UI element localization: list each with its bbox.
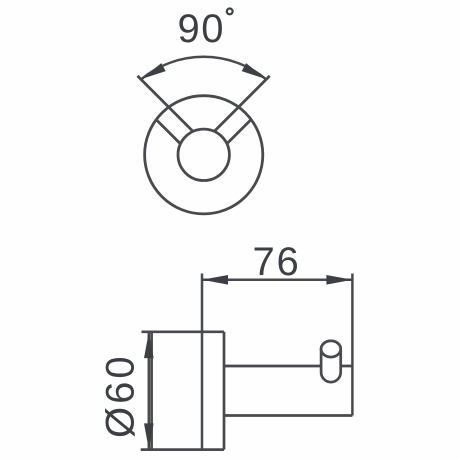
outer circle (flange, top view) <box>145 96 263 214</box>
plate left edge <box>150 332 153 450</box>
peg body (cylinder) <box>321 341 341 382</box>
svg-text:90: 90 <box>178 7 226 51</box>
flange/body split line + left extension line of 76 <box>201 274 204 450</box>
arm bottom edge <box>224 414 352 417</box>
76 arrowhead left <box>202 275 228 285</box>
right arm long edge / extension line <box>213 76 270 133</box>
dimension line 76 <box>202 279 352 282</box>
90 degree dimension arc <box>141 57 266 80</box>
arc arrowhead left <box>142 63 166 79</box>
inner circle (post, top view) <box>178 129 229 180</box>
right arm short edge <box>226 120 251 145</box>
arm end edge + right extension line of 76 <box>351 274 354 416</box>
plate top edge (with extension for dia 60) <box>142 330 225 333</box>
dia60 arrowhead top <box>144 332 154 358</box>
svg-text:Ø60: Ø60 <box>99 353 143 438</box>
left arm short edge <box>156 120 181 145</box>
peg top ellipse <box>321 341 341 357</box>
dia60 arrowhead bottom <box>144 423 154 449</box>
76 arrowhead right <box>326 275 352 285</box>
plate bottom edge (with extension for dia 60) <box>141 448 224 451</box>
svg-text:76: 76 <box>253 240 301 284</box>
degree symbol <box>227 9 233 15</box>
left arm long edge / extension line <box>138 76 195 133</box>
dimension line dia 60 <box>148 332 151 449</box>
arc arrowhead right <box>242 63 266 79</box>
arm top edge <box>224 365 352 368</box>
plate right edge <box>223 332 226 450</box>
